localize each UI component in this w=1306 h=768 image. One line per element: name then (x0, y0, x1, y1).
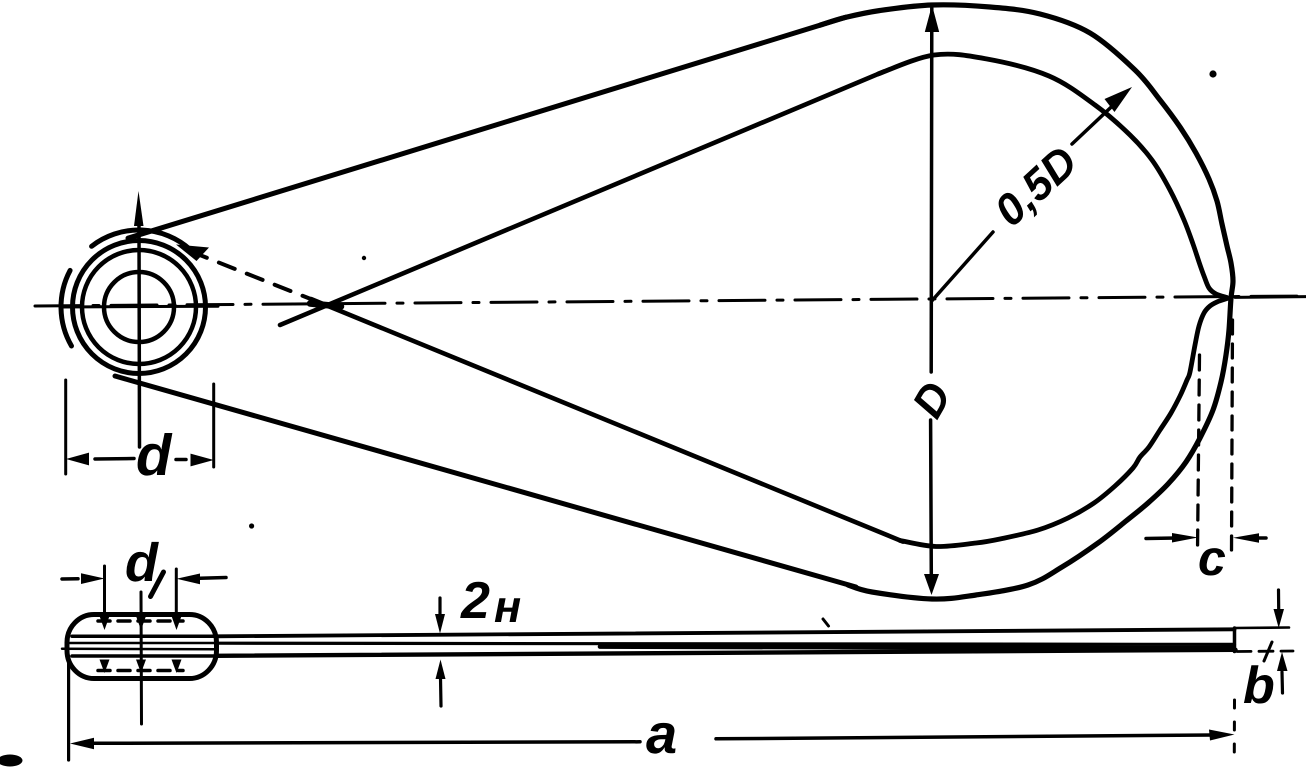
dimension d extension line left (64, 380, 67, 474)
dimension 2n top arrow (438, 598, 441, 615)
blob bottom left corner (0, 755, 23, 767)
center line horizontal (dash-dot axis) (35, 296, 1306, 306)
arrow capsule bottom 2 (136, 660, 146, 674)
small circle middle (tube inner wall) (82, 250, 196, 364)
arrow capsule top 1 (100, 616, 110, 630)
hidden dashed line capsule top (98, 619, 183, 623)
radius 0,5D line upper segment (1072, 95, 1124, 144)
big inner arc top (878, 54, 1227, 297)
wire capsule inner line 1 (72, 635, 216, 639)
wire bar middle line (216, 643, 1235, 644)
capsule side view outline (67, 615, 217, 679)
speck mid-left (362, 256, 366, 260)
dimension d extension line right (212, 384, 215, 467)
label a (646, 723, 675, 754)
arrow capsule top 3 (172, 616, 182, 630)
dimension b top reference line (1235, 626, 1290, 629)
wire upper outer band line (128, 17, 846, 238)
label 0,5D rotated (992, 144, 1084, 232)
dimension d1 extension left (103, 566, 106, 616)
dimension b bottom arrow (1280, 672, 1284, 693)
wire capsule inner line 3 (62, 648, 216, 651)
dimension a line right segment with arrow (716, 735, 1213, 739)
dimension D vertical line upper (929, 8, 933, 372)
dimension a line left segment with arrow (92, 742, 640, 744)
arrow capsule bottom 1 (100, 660, 110, 674)
dimension c line left with arrow (1146, 536, 1176, 540)
dimension c line right with arrow (1256, 536, 1266, 540)
node crossing junction blob (310, 304, 341, 307)
label d1 (127, 542, 159, 582)
wire bar bottom line (216, 650, 1236, 656)
dimension b bottom dashed reference (1237, 650, 1293, 653)
label d1 subscript stroke (151, 572, 164, 597)
dimension d1 extension right (175, 569, 178, 616)
dimension d1 center axis vertical (140, 592, 144, 724)
speck below d label (249, 523, 254, 528)
dimension c extension dashed right (1232, 320, 1233, 553)
wire capsule inner line 4 (72, 654, 216, 658)
wire center line solid right of pinch (1235, 295, 1306, 299)
dimension a extension dashed right (1233, 700, 1236, 752)
label n part (495, 598, 521, 622)
wire lower inner band line (311, 299, 903, 542)
big outer circle arc (820, 5, 1233, 599)
dimension D vertical line lower (929, 420, 933, 576)
label c (1200, 548, 1226, 575)
wire bar right end cap (1233, 628, 1237, 652)
small circle outer (tube outer wall) (73, 241, 206, 374)
dimension b top arrow (1277, 590, 1280, 610)
dimension d1 line left with arrow (62, 577, 78, 581)
label d (138, 433, 173, 476)
wire bar thick ink stretch (600, 647, 1232, 649)
node small circle vertical center line (137, 225, 141, 447)
dimension d line left with arrow (95, 457, 134, 461)
dimension d1 line right with arrow (200, 576, 226, 580)
arrow capsule top 2 (136, 616, 146, 630)
arc overlap fragment left (61, 270, 71, 346)
arrowhead of hidden line (176, 245, 209, 262)
arrow capsule bottom 3 (172, 660, 182, 674)
dimension c extension dashed left (1198, 355, 1200, 552)
wire bar top line (216, 629, 1235, 636)
wire lower outer band line (115, 376, 856, 587)
radius 0,5D line lower segment (932, 232, 993, 301)
speck near 0,5D (1209, 70, 1216, 77)
dimension d line right with arrow (176, 458, 186, 462)
wire upper inner band line (280, 72, 884, 326)
dimension a extension line left (67, 656, 70, 760)
arrow D top (925, 5, 939, 32)
hidden dashed line capsule bottom (98, 669, 183, 673)
arrow 0,5D (1105, 87, 1133, 112)
tick on bar top line (823, 619, 829, 626)
label b (1244, 665, 1273, 703)
big inner arc bottom (900, 299, 1227, 547)
small circle inner (tube bore) (104, 272, 174, 342)
label 2n (460, 582, 489, 618)
hidden dashed tangent line (191, 252, 322, 304)
dimension 2n bottom arrow (439, 678, 443, 706)
label D rotated (911, 379, 952, 420)
tick near b (1264, 642, 1272, 661)
arrow D bottom (924, 574, 939, 595)
wire center line solid through small circle (62, 305, 218, 309)
arc overlap fragment top (92, 230, 191, 250)
wire capsule inner line 2 (70, 642, 216, 645)
arrow tick top of small circle axis (134, 191, 144, 226)
